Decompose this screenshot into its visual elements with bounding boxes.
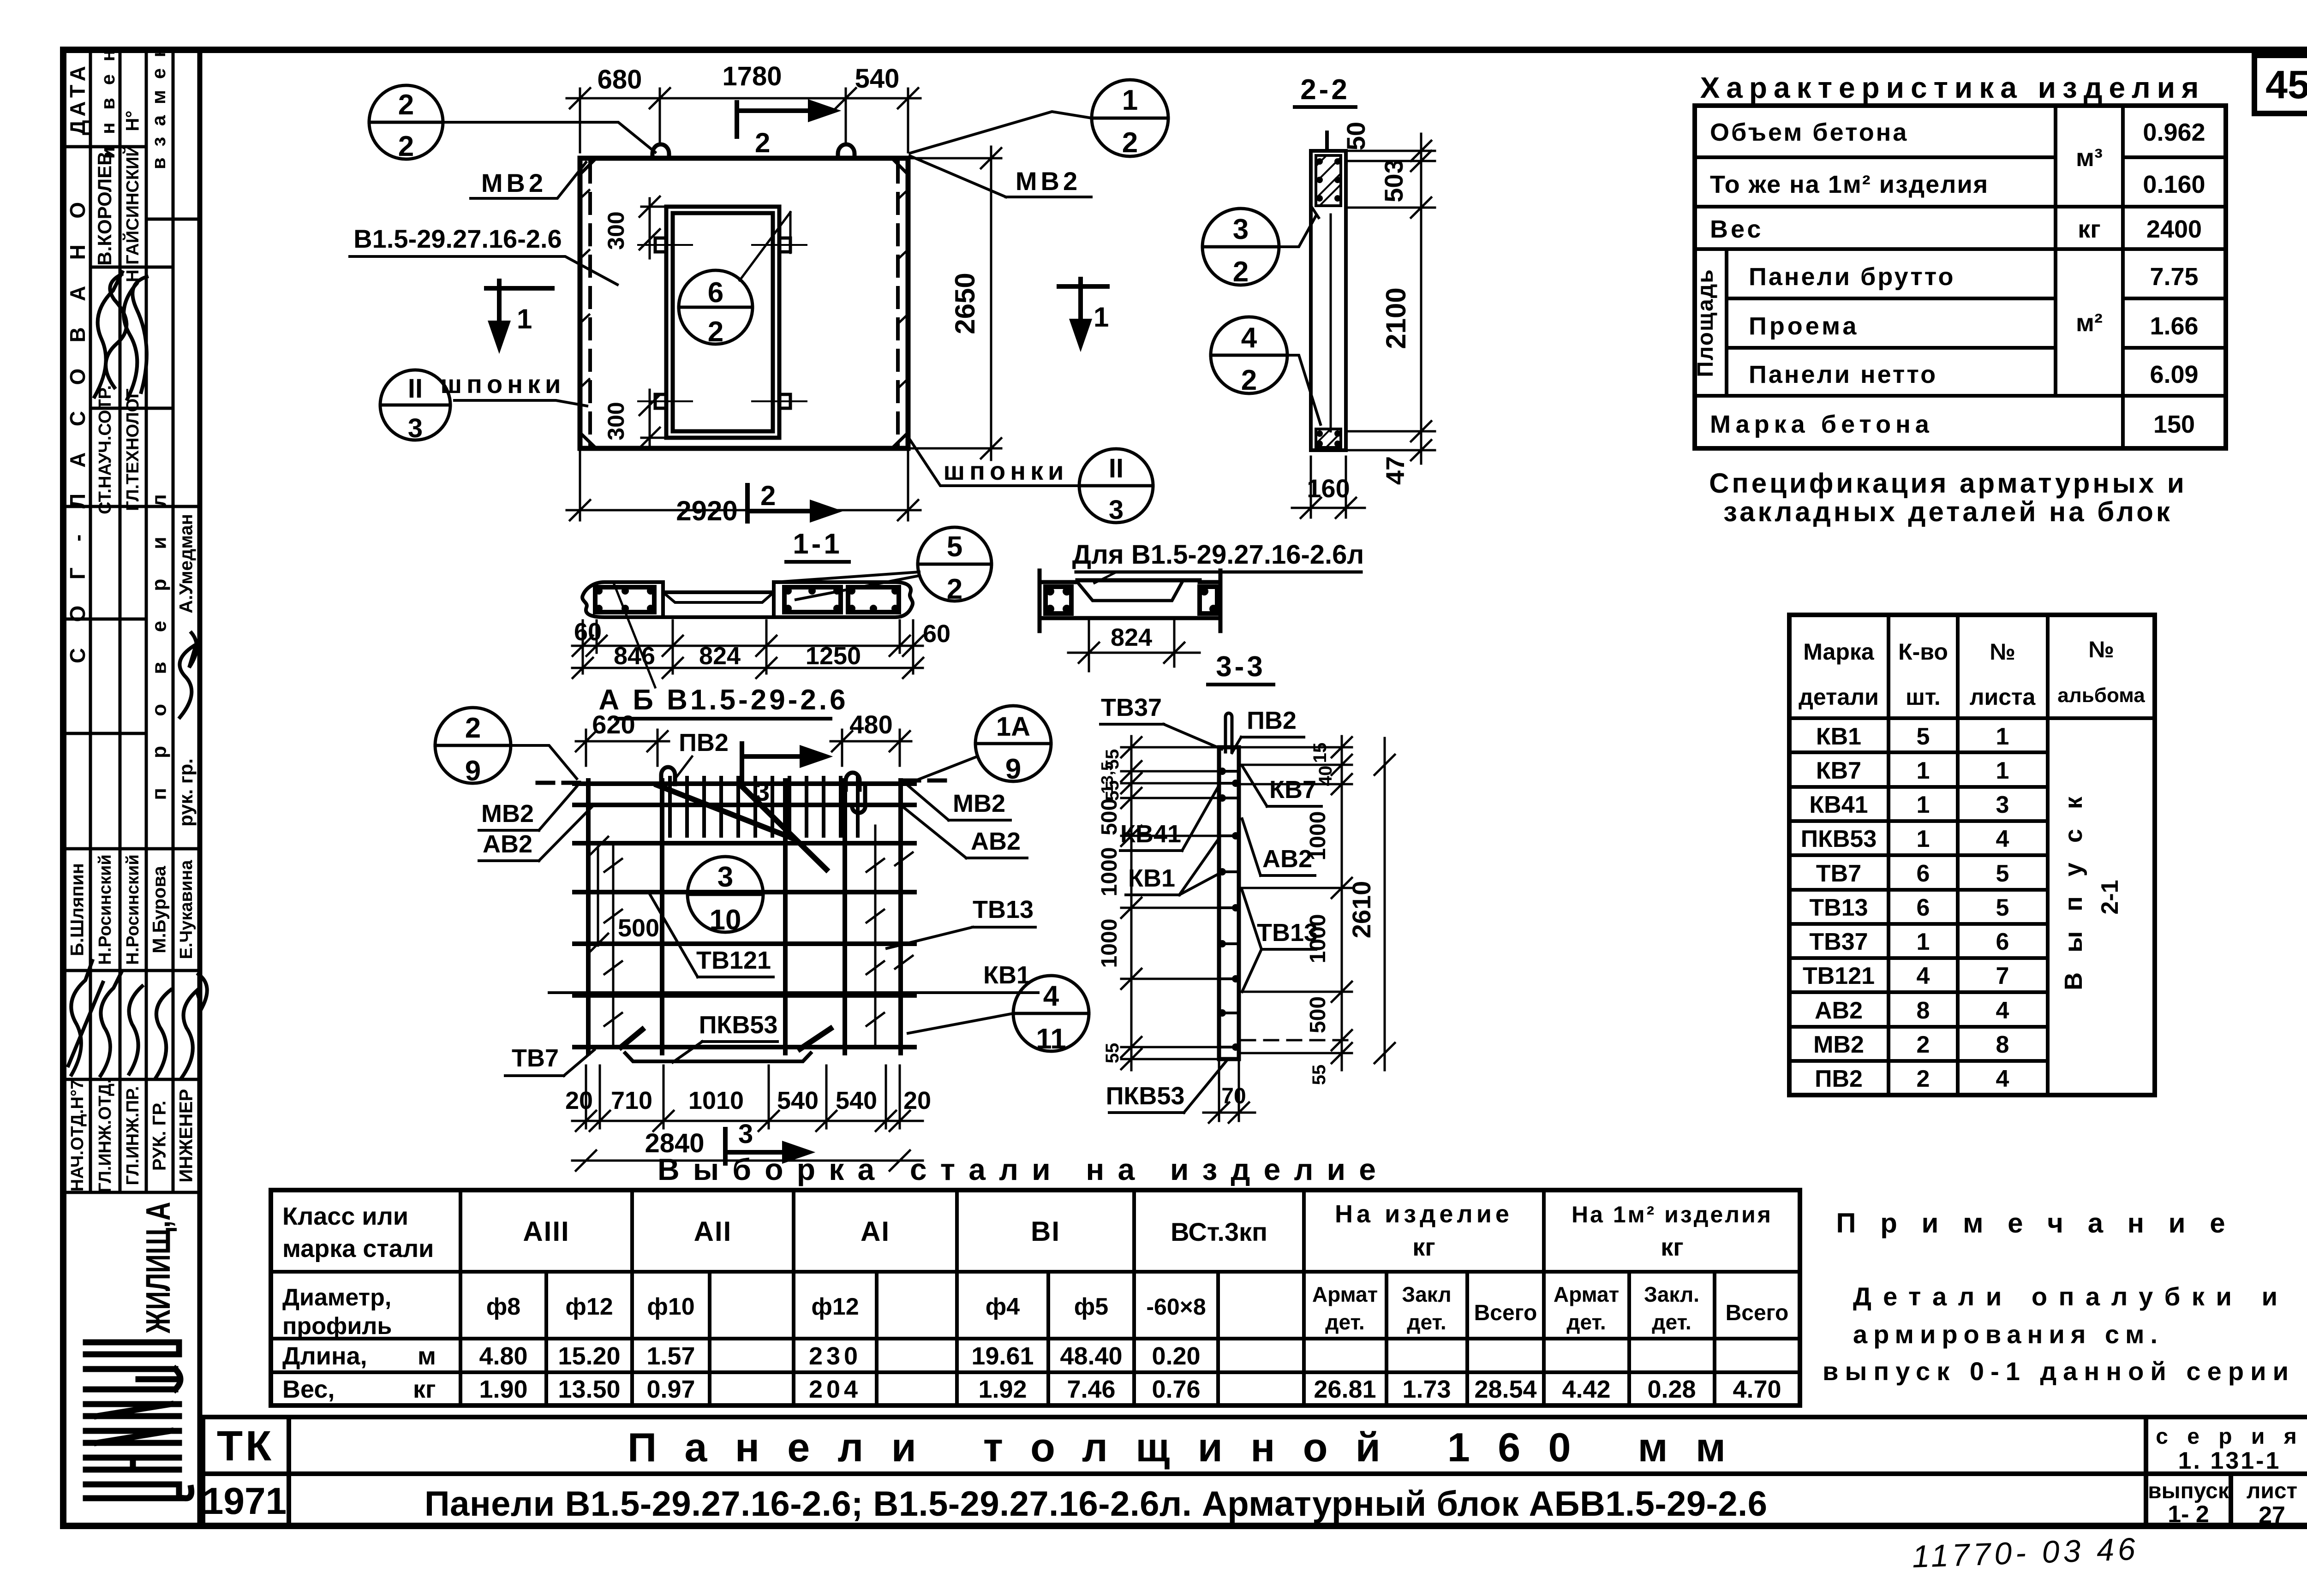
svg-text:м²: м² — [2076, 309, 2103, 337]
svg-text:ТВ37: ТВ37 — [1809, 929, 1868, 955]
ABV block: thin edge bars with weld ticks — [604, 826, 913, 1047]
ABV label MV2 (right) — [905, 783, 1010, 820]
section 3-3 bottom dim 70 — [1203, 1062, 1255, 1123]
svg-text:КВ41: КВ41 — [1120, 820, 1181, 848]
section 1-1 left hollow segment — [582, 582, 663, 617]
svg-text:ТВ121: ТВ121 — [696, 947, 771, 974]
title block: series box — [2148, 1424, 2303, 1529]
plan view: top dimension chain 680/1780/540 — [567, 88, 920, 152]
plan leader to node 1/2 — [910, 112, 1092, 153]
section 2-2 right dimension chain 50/503/2100/47 — [1347, 134, 1435, 464]
svg-text:15.20: 15.20 — [558, 1342, 620, 1370]
plan view: section cut mark 2 (bottom) — [747, 485, 836, 521]
svg-text:Диаметр,: Диаметр, — [282, 1284, 391, 1311]
svg-text:3: 3 — [1233, 214, 1249, 245]
svg-text:ГЛ.ТЕХНОЛОГ: ГЛ.ТЕХНОЛОГ — [123, 388, 143, 511]
svg-text:К-во: К-во — [1898, 639, 1948, 665]
svg-text:6: 6 — [1917, 894, 1930, 921]
letter N — [86, 1455, 179, 1461]
svg-text:Панели нетто: Панели нетто — [1749, 361, 1937, 388]
node circle 1A/9 — [918, 706, 1051, 785]
svg-text:ПВ2: ПВ2 — [1247, 707, 1297, 734]
svg-text:КВ1: КВ1 — [1128, 864, 1175, 892]
svg-text:48.40: 48.40 — [1060, 1342, 1122, 1370]
plan label shponki (right) + node II/3 — [909, 438, 1153, 525]
svg-text:55: 55 — [1102, 780, 1123, 801]
ABV bottom dim chain 20/710/1010/540/540/20 — [572, 1066, 923, 1131]
svg-text:2: 2 — [465, 712, 481, 744]
svg-text:4: 4 — [1996, 1066, 2009, 1092]
svg-text:Панели В1.5-29.27.16-2.6; В1.5: Панели В1.5-29.27.16-2.6; В1.5-29.27.16-… — [424, 1484, 1767, 1524]
svg-text:2: 2 — [1122, 127, 1138, 159]
svg-text:0.76: 0.76 — [1152, 1376, 1200, 1403]
svg-text:ВСт.3кп: ВСт.3кп — [1171, 1217, 1267, 1246]
svg-text:с е р и я: с е р и я — [2156, 1424, 2303, 1449]
svg-text:ПВ2: ПВ2 — [1815, 1066, 1863, 1092]
svg-text:1: 1 — [1996, 757, 2009, 784]
svg-text:в з а м е н: в з а м е н — [148, 43, 169, 169]
svg-text:МВ2: МВ2 — [481, 168, 547, 197]
letter I — [86, 1401, 179, 1407]
section 3-3 label KV41 — [1120, 787, 1218, 851]
svg-text:10: 10 — [710, 904, 741, 936]
svg-text:6.09: 6.09 — [2150, 361, 2198, 388]
svg-text:1.90: 1.90 — [479, 1376, 527, 1403]
svg-text:рук. гр.: рук. гр. — [175, 758, 197, 827]
svg-text:1: 1 — [1996, 723, 2009, 750]
svg-text:11: 11 — [1036, 1023, 1066, 1055]
svg-text:Вес: Вес — [1710, 215, 1763, 243]
svg-text:Д А Т А: Д А Т А — [66, 66, 90, 135]
svg-text:А.Умедман: А.Умедман — [176, 514, 197, 613]
svg-text:500: 500 — [1306, 996, 1330, 1033]
svg-text:1-1: 1-1 — [793, 528, 843, 560]
svg-text:2100: 2100 — [1381, 287, 1411, 349]
svg-text:На 1м² изделия: На 1м² изделия — [1572, 1202, 1773, 1227]
plan view: key hatch ticks — [580, 190, 908, 387]
section 3-3 overall dim 2610 — [1375, 738, 1395, 1070]
svg-text:3: 3 — [1109, 495, 1124, 525]
svg-text:1: 1 — [1917, 757, 1930, 784]
svg-text:47: 47 — [1381, 456, 1410, 485]
svg-text:2920: 2920 — [676, 495, 737, 526]
svg-text:2-2: 2-2 — [1300, 74, 1350, 106]
plan view: opening edge tabs — [638, 238, 807, 408]
fragment section for B1.5-29.27.16-2.6l — [1040, 571, 1220, 631]
svg-text:8: 8 — [1917, 997, 1930, 1024]
section 2-2 member — [1311, 132, 1346, 450]
strip/main area divider — [197, 50, 203, 1526]
ABV block: MV2 dashed tie bars — [538, 780, 950, 783]
ABV label AV2 (right) — [903, 807, 1027, 858]
ABV block: label PV2 — [675, 729, 729, 780]
section 3-3 member — [1219, 747, 1239, 1059]
svg-text:1.92: 1.92 — [978, 1376, 1027, 1403]
section 1-1 middle solid slab — [663, 592, 774, 617]
svg-text:4: 4 — [1996, 826, 2009, 852]
ABV label TV7 — [505, 1044, 594, 1076]
ABV block: TV121 diagonal bars — [657, 784, 826, 869]
svg-text:Всего: Всего — [1474, 1301, 1537, 1325]
svg-text:26.81: 26.81 — [1314, 1376, 1376, 1403]
svg-text:50: 50 — [1341, 122, 1370, 150]
svg-text:КВ7: КВ7 — [1816, 757, 1861, 784]
svg-text:7.46: 7.46 — [1067, 1376, 1115, 1403]
plan view: section cut marks 1 (left and right) — [486, 279, 1107, 347]
ABV dim 500 — [588, 837, 608, 954]
svg-text:КВ1: КВ1 — [1816, 723, 1861, 750]
svg-text:2: 2 — [1233, 256, 1249, 288]
section 3-3 label TV37 — [1100, 694, 1222, 749]
svg-text:5: 5 — [1996, 894, 2009, 921]
svg-text:Е.Чукавина: Е.Чукавина — [177, 860, 196, 959]
svg-text:3-3: 3-3 — [1216, 651, 1266, 683]
svg-text:620: 620 — [592, 710, 635, 739]
svg-text:4: 4 — [1241, 322, 1257, 354]
svg-text:кг: кг — [2078, 215, 2101, 243]
ABV label MV2 (left) — [479, 786, 577, 830]
approval signatures (handwritten squiggles) — [68, 272, 207, 1078]
svg-text:3: 3 — [717, 861, 733, 893]
svg-text:Марка: Марка — [1803, 639, 1875, 665]
plan view: shponki dashed key lines — [590, 162, 898, 445]
svg-text:3: 3 — [755, 777, 770, 807]
svg-text:АIII: АIII — [523, 1216, 569, 1247]
svg-text:503: 503 — [1379, 159, 1408, 202]
svg-text:РУК. ГР.: РУК. ГР. — [149, 1101, 170, 1171]
svg-text:II: II — [408, 374, 423, 404]
svg-text:дет.: дет. — [1325, 1310, 1364, 1334]
svg-text:9: 9 — [465, 755, 481, 787]
section 3-3 label PV2 — [1232, 707, 1304, 753]
svg-text:2: 2 — [1241, 364, 1257, 396]
svg-text:1: 1 — [1917, 826, 1930, 852]
svg-text:4.80: 4.80 — [479, 1342, 527, 1370]
section 3-3 PV2 top loop — [1225, 713, 1232, 752]
svg-text:60: 60 — [574, 618, 602, 646]
svg-text:ф8: ф8 — [486, 1293, 520, 1320]
ABV label TV13 (right) — [887, 896, 1035, 948]
note text — [1823, 1282, 2289, 1386]
ABV overall dim 2840 with cut mark 3 — [572, 1150, 923, 1171]
letter I — [86, 1428, 179, 1434]
svg-text:Для В1.5-29.27.16-2.6л: Для В1.5-29.27.16-2.6л — [1072, 540, 1364, 570]
svg-text:ТВ7: ТВ7 — [1816, 860, 1861, 887]
svg-text:детали: детали — [1799, 684, 1879, 710]
svg-text:Н.Росинский: Н.Росинский — [96, 854, 115, 965]
specification table grid — [1789, 615, 2155, 1095]
svg-text:Н.Росинский: Н.Росинский — [123, 854, 143, 965]
characteristics table texts — [1693, 119, 2205, 438]
svg-text:альбома: альбома — [2057, 684, 2145, 707]
svg-text:ф5: ф5 — [1074, 1293, 1108, 1320]
TsNIIEP stencil logo strokes — [86, 1342, 191, 1498]
svg-text:и н в е н: и н в е н — [97, 46, 119, 159]
svg-text:ПВ2: ПВ2 — [679, 729, 729, 756]
svg-text:ТВ13: ТВ13 — [1809, 894, 1868, 921]
svg-text:2: 2 — [398, 89, 414, 121]
svg-text:1.73: 1.73 — [1402, 1376, 1451, 1403]
node circle 4/11 — [908, 976, 1089, 1055]
section 1-1 dimensions 60/846/824/1250/60 — [572, 620, 923, 678]
svg-text:№: № — [2088, 637, 2114, 662]
svg-text:ПКВ53: ПКВ53 — [1801, 826, 1877, 852]
svg-text:6: 6 — [708, 277, 723, 309]
svg-text:2: 2 — [755, 127, 770, 158]
svg-text:1: 1 — [517, 304, 532, 334]
svg-text:Площадь: Площадь — [1693, 268, 1718, 377]
svg-text:150: 150 — [2153, 411, 2195, 438]
svg-text:2650: 2650 — [950, 273, 980, 334]
svg-text:540: 540 — [855, 64, 900, 94]
specification merged column: Vypusk 2-1 — [2060, 790, 2123, 990]
plan view: lifting hooks — [652, 144, 855, 157]
letter Ts — [86, 1482, 179, 1488]
svg-text:Вес,: Вес, — [282, 1376, 335, 1403]
steel summary table grid — [271, 1190, 1800, 1405]
svg-text:НАЧ.ОТД.Н°7: НАЧ.ОТД.Н°7 — [68, 1080, 87, 1191]
svg-text:Панели брутто: Панели брутто — [1749, 263, 1955, 291]
svg-text:2: 2 — [1917, 1031, 1930, 1058]
svg-text:ИНЖЕНЕР: ИНЖЕНЕР — [176, 1089, 197, 1183]
svg-text:Проема: Проема — [1749, 312, 1859, 340]
svg-text:6: 6 — [1996, 929, 2009, 955]
svg-text:7: 7 — [1996, 963, 2009, 989]
svg-text:4: 4 — [1996, 997, 2009, 1024]
svg-text:480: 480 — [849, 710, 892, 739]
svg-text:160: 160 — [1307, 474, 1350, 503]
TsNIIEP ZhILISCHA logo block — [139, 1202, 177, 1334]
svg-text:КВ7: КВ7 — [1269, 776, 1316, 804]
svg-text:А Б В1.5-29-2.6: А Б В1.5-29-2.6 — [598, 684, 848, 716]
svg-text:-60×8: -60×8 — [1146, 1294, 1206, 1320]
svg-text:2: 2 — [1917, 1066, 1930, 1092]
svg-text:ТВ13: ТВ13 — [1257, 919, 1318, 947]
title block grid — [200, 1417, 2307, 1526]
svg-text:Армат: Армат — [1554, 1282, 1619, 1306]
svg-text:1: 1 — [1917, 792, 1930, 818]
svg-text:5: 5 — [1996, 860, 2009, 887]
svg-text:В.КОРОЛЕВ: В.КОРОЛЕВ — [94, 151, 115, 265]
plan view: door opening — [666, 207, 779, 438]
svg-text:ПКВ53: ПКВ53 — [1106, 1082, 1185, 1110]
svg-text:Закл: Закл — [1402, 1282, 1451, 1306]
plan view: bottom dimension 2920 — [567, 452, 920, 520]
svg-text:ТК: ТК — [217, 1423, 274, 1470]
section 3-3 left dim chain — [1121, 736, 1216, 1070]
svg-text:В ы п у с к: В ы п у с к — [2060, 790, 2087, 990]
ABV block: horizontal bars — [574, 784, 914, 1047]
svg-text:0.97: 0.97 — [646, 1376, 695, 1403]
svg-text:680: 680 — [598, 65, 642, 95]
svg-text:Марка бетона: Марка бетона — [1710, 411, 1934, 438]
svg-text:1.66: 1.66 — [2150, 312, 2198, 340]
svg-text:шпонки: шпонки — [441, 369, 566, 399]
plan label MB2 (right) — [910, 156, 1093, 197]
svg-text:9: 9 — [1005, 753, 1021, 785]
svg-text:7.75: 7.75 — [2150, 263, 2198, 291]
svg-text:1010: 1010 — [688, 1087, 744, 1114]
svg-text:13.50: 13.50 — [558, 1376, 620, 1403]
svg-text:Армат: Армат — [1312, 1282, 1378, 1306]
svg-text:824: 824 — [699, 642, 741, 670]
svg-text:Характеристика изделия: Характеристика изделия — [1700, 71, 2205, 104]
svg-text:Б.Шляпин: Б.Шляпин — [67, 863, 88, 956]
svg-text:824: 824 — [1111, 624, 1152, 651]
section 3-3 label PKV53 — [1106, 1061, 1226, 1113]
svg-text:м³: м³ — [2076, 144, 2103, 172]
ABV block: PV2 hooks — [661, 767, 865, 813]
svg-text:28.54: 28.54 — [1474, 1376, 1536, 1403]
ABV block: main vertical bars — [588, 780, 901, 1053]
node circle 2/9 — [435, 708, 577, 787]
sheet number box 45 — [2254, 55, 2307, 113]
svg-text:4.42: 4.42 — [1562, 1376, 1610, 1403]
svg-text:кг: кг — [413, 1376, 436, 1403]
svg-text:3: 3 — [408, 413, 423, 443]
svg-text:4: 4 — [1917, 963, 1930, 989]
svg-text:Н.ГАЙСИНСКИЙ: Н.ГАЙСИНСКИЙ — [122, 144, 143, 282]
letter P — [86, 1340, 179, 1346]
svg-text:профиль: профиль — [282, 1313, 392, 1340]
svg-text:1. 131-1: 1. 131-1 — [2178, 1447, 2281, 1474]
svg-text:М.Бурова: М.Бурова — [149, 865, 170, 953]
svg-text:55: 55 — [1102, 1043, 1123, 1064]
svg-text:19.61: 19.61 — [971, 1342, 1034, 1370]
label ABV1.5-29-2.6 under section 1-1 — [598, 583, 848, 719]
ABV label KV1 (right) — [549, 961, 1038, 993]
svg-text:В1.5-29.27.16-2.6: В1.5-29.27.16-2.6 — [353, 224, 562, 253]
svg-text:15: 15 — [1310, 743, 1330, 763]
plan view: right dimension 2650 — [911, 147, 1001, 460]
section 2-2 rebar dots — [1316, 158, 1341, 447]
svg-text:кг: кг — [1661, 1233, 1684, 1261]
svg-text:дет.: дет. — [1652, 1310, 1691, 1334]
svg-text:КВ1: КВ1 — [983, 961, 1030, 989]
section 2-2 bottom dimension 160 — [1292, 457, 1365, 518]
plan label MB2 (left) — [471, 162, 586, 198]
svg-text:п р о в е р и л: п р о в е р и л — [148, 482, 171, 800]
svg-text:1: 1 — [1094, 302, 1109, 333]
plan view: opening 300 dims — [640, 197, 666, 448]
svg-text:1.57: 1.57 — [646, 1342, 695, 1370]
svg-text:дет.: дет. — [1407, 1310, 1446, 1334]
svg-text:55: 55 — [1309, 1065, 1329, 1085]
section 2-2 node circles 3/2 4/2 — [1202, 208, 1321, 424]
svg-text:1: 1 — [1917, 929, 1930, 955]
svg-text:На изделие: На изделие — [1335, 1200, 1513, 1228]
svg-text:0.28: 0.28 — [1647, 1376, 1696, 1403]
svg-text:II: II — [1109, 453, 1124, 483]
ABV block: dim 480 — [831, 730, 911, 766]
svg-text:1000: 1000 — [1097, 919, 1122, 968]
svg-text:2400: 2400 — [2146, 215, 2202, 243]
svg-text:846: 846 — [614, 642, 655, 670]
svg-text:540: 540 — [836, 1087, 877, 1114]
ABV block: dense lintel stirrups — [670, 778, 858, 836]
svg-text:Спецификация арматурных и: Спецификация арматурных и — [1709, 468, 2187, 499]
node circle 2/2 with leader to hook — [369, 85, 655, 162]
svg-text:2: 2 — [947, 573, 962, 605]
svg-text:ф12: ф12 — [811, 1293, 859, 1320]
svg-text:4.70: 4.70 — [1733, 1376, 1781, 1403]
svg-text:Н°: Н° — [123, 111, 143, 131]
svg-text:МВ2: МВ2 — [953, 790, 1005, 817]
svg-text:Длина,: Длина, — [282, 1342, 367, 1370]
svg-text:АI: АI — [861, 1216, 890, 1247]
plan view: corner chamfer marks — [580, 159, 908, 447]
svg-text:ВI: ВI — [1031, 1216, 1060, 1247]
svg-text:0.962: 0.962 — [2143, 119, 2205, 146]
svg-text:3: 3 — [1996, 792, 2009, 818]
plan view: section cut mark 2 (top) — [737, 102, 834, 137]
column lines — [89, 50, 92, 1192]
svg-text:марка стали: марка стали — [282, 1235, 434, 1263]
steel summary table header row 1 — [282, 1200, 1773, 1263]
ABV label AV2 (left) — [479, 807, 592, 861]
svg-text:1- 2: 1- 2 — [2168, 1501, 2209, 1528]
svg-text:5: 5 — [1917, 723, 1930, 750]
svg-text:То же на 1м² изделия: То же на 1м² изделия — [1710, 171, 1989, 198]
svg-text:дет.: дет. — [1566, 1310, 1606, 1334]
letter E (reversed) — [86, 1366, 175, 1372]
svg-text:ЖИЛИЩ,А: ЖИЛИЩ,А — [139, 1202, 177, 1334]
svg-text:1А: 1А — [996, 712, 1030, 742]
svg-text:2: 2 — [708, 316, 723, 348]
svg-text:листа: листа — [1970, 684, 2036, 710]
svg-text:70: 70 — [1221, 1084, 1246, 1108]
steel summary table data rows — [282, 1342, 1781, 1403]
svg-text:выпуск: выпуск — [2148, 1479, 2229, 1503]
svg-text:0.160: 0.160 — [2143, 171, 2205, 198]
svg-text:лист: лист — [2247, 1479, 2297, 1503]
svg-text:МВ2: МВ2 — [1016, 167, 1081, 196]
svg-text:300: 300 — [603, 402, 629, 440]
section 3-3 ladder rungs — [1219, 771, 1239, 1047]
svg-text:ТВ13: ТВ13 — [973, 896, 1034, 923]
svg-text:ТВ121: ТВ121 — [1803, 963, 1875, 989]
svg-text:ГЛ.ИНЖ.ОТД.: ГЛ.ИНЖ.ОТД. — [96, 1079, 115, 1193]
svg-text:шпонки: шпонки — [944, 456, 1069, 485]
section 1-1 title — [786, 528, 849, 562]
svg-text:20: 20 — [903, 1087, 931, 1114]
svg-text:АII: АII — [694, 1216, 732, 1247]
svg-text:МВ2: МВ2 — [481, 800, 534, 828]
ABV label TV121 — [650, 894, 773, 977]
svg-text:20: 20 — [565, 1087, 593, 1114]
svg-text:3: 3 — [738, 1119, 753, 1149]
svg-text:8: 8 — [1996, 1031, 2009, 1058]
node circle 1/2 — [1092, 80, 1168, 159]
svg-text:6: 6 — [1917, 860, 1930, 887]
svg-text:500: 500 — [1097, 798, 1122, 835]
svg-text:230: 230 — [809, 1342, 861, 1370]
svg-text:СТ.НАУЧ.СОТР.: СТ.НАУЧ.СОТР. — [96, 385, 115, 514]
label: Dlya B1.5-29.27.16-2.6l fragment — [1072, 540, 1364, 583]
svg-text:ф12: ф12 — [565, 1293, 613, 1320]
svg-text:МВ2: МВ2 — [1813, 1031, 1864, 1058]
svg-text:ТВ7: ТВ7 — [512, 1044, 559, 1072]
svg-text:ф4: ф4 — [986, 1293, 1020, 1320]
svg-text:Объем бетона: Объем бетона — [1710, 119, 1908, 146]
svg-text:Всего: Всего — [1726, 1301, 1789, 1325]
svg-text:Закл.: Закл. — [1644, 1282, 1699, 1306]
section 3-3 label TV13 — [1242, 890, 1318, 992]
plan view: node circle 6/2 — [679, 212, 790, 344]
node circle 3/10 — [687, 857, 763, 936]
svg-text:2-1: 2-1 — [2097, 880, 2123, 914]
ABV label PKV53 — [673, 1011, 777, 1062]
